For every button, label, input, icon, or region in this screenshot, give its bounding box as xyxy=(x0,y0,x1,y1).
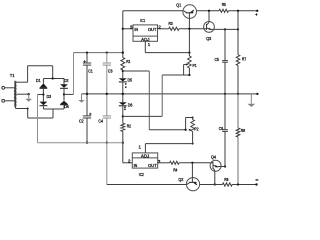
svg-text:R2: R2 xyxy=(127,123,132,128)
svg-text:P1: P1 xyxy=(193,63,198,68)
svg-text:Q2: Q2 xyxy=(178,177,183,182)
svg-text:ADJ: ADJ xyxy=(141,153,149,158)
svg-text:C3: C3 xyxy=(108,69,113,74)
svg-text:R6: R6 xyxy=(224,177,229,182)
svg-text:R5: R5 xyxy=(222,2,227,7)
svg-text:R7: R7 xyxy=(242,57,247,62)
svg-text:D4: D4 xyxy=(64,104,69,109)
svg-text:R4: R4 xyxy=(173,168,178,173)
svg-text:D1: D1 xyxy=(36,78,41,83)
svg-text:Q1: Q1 xyxy=(176,2,181,7)
svg-text:OUT: OUT xyxy=(148,163,157,168)
svg-text:C5: C5 xyxy=(215,57,220,62)
svg-text:P2: P2 xyxy=(194,126,199,131)
svg-text:R8: R8 xyxy=(241,128,246,133)
svg-text:D6: D6 xyxy=(128,102,133,107)
svg-text:C2: C2 xyxy=(79,119,84,124)
svg-text:C6: C6 xyxy=(219,126,224,131)
svg-text:IC2: IC2 xyxy=(139,172,144,177)
svg-text:D3: D3 xyxy=(47,94,52,99)
svg-text:Q3: Q3 xyxy=(206,36,211,41)
svg-text:R3: R3 xyxy=(169,21,174,26)
svg-text:IC1: IC1 xyxy=(140,18,145,23)
svg-text:R1: R1 xyxy=(126,59,131,64)
svg-text:IN: IN xyxy=(134,163,138,168)
svg-text:D5: D5 xyxy=(128,78,133,83)
svg-text:C4: C4 xyxy=(98,119,103,124)
svg-text:C1: C1 xyxy=(88,69,93,74)
svg-text:T1: T1 xyxy=(10,73,15,78)
svg-text:IN: IN xyxy=(134,27,138,32)
svg-text:OUT: OUT xyxy=(148,27,157,32)
svg-text:D2: D2 xyxy=(64,78,69,83)
svg-text:Q4: Q4 xyxy=(211,155,216,160)
